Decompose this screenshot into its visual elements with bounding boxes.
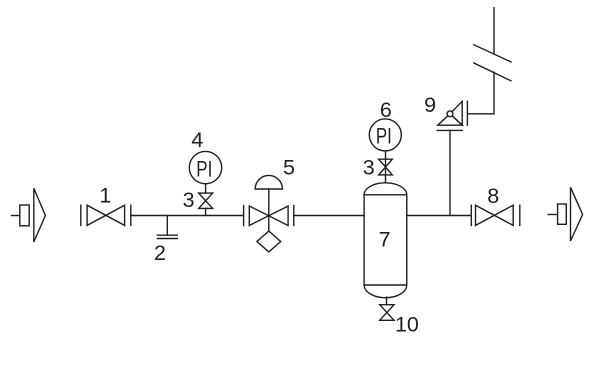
svg-text:10: 10 (395, 313, 419, 337)
valve 1 flange tick right (130, 205, 132, 225)
control valve 5 flange tick right (293, 206, 295, 226)
svg-text:4: 4 (191, 128, 203, 152)
line break slash lower (474, 63, 511, 81)
svg-text:3: 3 (363, 156, 375, 180)
wire: valve 1 to control valve 5 (131, 215, 244, 217)
relief valve 9 seat line (437, 129, 462, 131)
wire: control valve 5 to vessel 7 (294, 215, 364, 217)
valve 1 (87, 205, 125, 225)
vessel 7 bottom head (364, 285, 407, 298)
svg-text:6: 6 (380, 98, 392, 122)
wire: vessel 7 to valve 8 (407, 215, 472, 217)
control valve 5 actuator diaphragm dome (255, 175, 282, 189)
valve 8 (476, 205, 514, 225)
valve 8 flange tick right (519, 205, 521, 225)
control valve 5 flange tick left (243, 206, 245, 226)
wire: vessel top to valve 3 (right) (385, 159, 387, 182)
valve 10 (380, 305, 394, 321)
inlet off-page connector arrow (left) (12, 215, 20, 217)
svg-text:1: 1 (99, 183, 111, 207)
wire: relief valve 9 outlet to riser (467, 72, 494, 114)
valve 3 (left, at gauge 4) (199, 193, 213, 208)
relief valve 9 outlet flange tick (466, 101, 468, 125)
pressure gauge PI 6 (369, 119, 401, 151)
svg-text:9: 9 (424, 93, 436, 117)
wire: valve 3 to gauge 6 (385, 151, 387, 159)
control valve 5 diamond (257, 231, 281, 252)
control valve 5 body (249, 206, 288, 226)
relief valve 9 body (438, 114, 463, 125)
svg-text:7: 7 (379, 227, 391, 251)
outlet off-page connector arrow (right) (548, 214, 557, 216)
vessel 7 shell (363, 195, 365, 285)
svg-text:5: 5 (283, 156, 295, 180)
drain stub 2 (166, 216, 168, 236)
control valve 5 lower stem (268, 216, 270, 232)
valve 3 (right, at gauge 6) (379, 159, 393, 175)
line break slash upper (474, 45, 511, 62)
relief valve 9 pilot circle (447, 111, 453, 117)
pressure gauge PI 4 (189, 151, 221, 183)
wire: branch up to gauge valve 3 (left) (205, 208, 207, 215)
vessel 7 top head (364, 183, 407, 195)
svg-text:8: 8 (487, 184, 499, 208)
svg-text:2: 2 (154, 241, 166, 265)
svg-text:PI: PI (376, 124, 392, 149)
valve 1 flange tick left (80, 205, 82, 225)
svg-text:PI: PI (196, 156, 212, 181)
control valve 5 actuator stem (268, 189, 270, 216)
wire: riser branch up to relief valve 9 (449, 130, 451, 215)
svg-text:3: 3 (183, 188, 195, 212)
wire: riser upper segment to flare (493, 8, 495, 54)
valve 8 flange tick left (470, 205, 472, 225)
wire: vessel bottom to valve 10 (386, 297, 388, 305)
wire: valve 3 to gauge 4 (205, 184, 207, 193)
